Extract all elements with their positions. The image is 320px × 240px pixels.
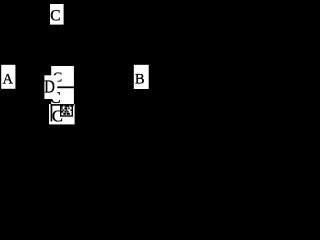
node C2 middle-top box (51, 66, 74, 86)
node C4 bottom box (49, 104, 75, 124)
node D box (overlaps C2/C3) (44, 75, 57, 99)
node C top box (50, 4, 64, 25)
dither row C (62, 109, 64, 110)
dither row B (61, 107, 62, 109)
svg-text:D: D (44, 77, 55, 97)
node B box (134, 65, 149, 89)
svg-text:A: A (3, 71, 14, 87)
svg-text:C: C (50, 7, 60, 24)
image icon box with dither pattern (61, 105, 73, 116)
dither row D (61, 111, 63, 113)
dither row A (61, 105, 63, 107)
svg-text:B: B (135, 71, 145, 87)
node A box (1, 65, 15, 89)
rule: bottom box left vertical rule (51, 104, 53, 121)
dither row E (63, 113, 66, 115)
rule: bottom box top border (51, 104, 75, 106)
node C3 middle box (51, 88, 74, 104)
